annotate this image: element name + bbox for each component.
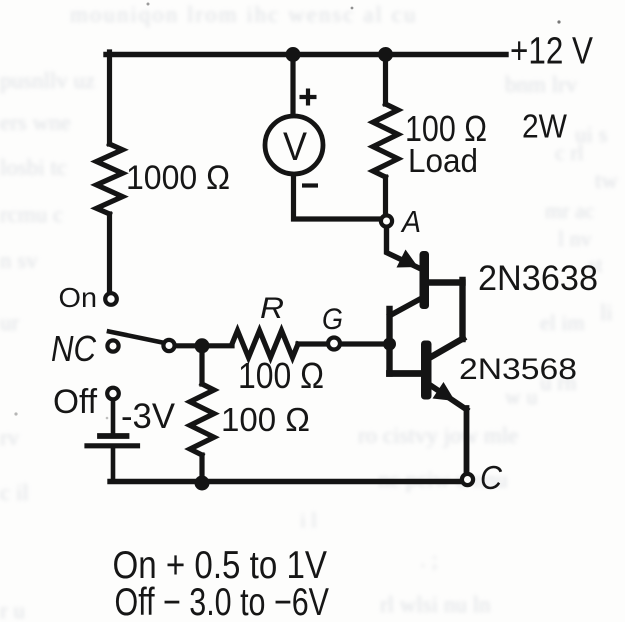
svg-text:ur: ur xyxy=(0,310,20,335)
svg-text:i l: i l xyxy=(300,508,317,532)
svg-text:. ;: . ; xyxy=(420,547,438,572)
svg-text:l nv: l nv xyxy=(558,226,592,251)
svg-text:rcmu c: rcmu c xyxy=(0,202,63,227)
svg-text:rl wlsi nu ln: rl wlsi nu ln xyxy=(380,592,491,617)
svg-text:C: C xyxy=(480,459,503,496)
svg-text:100 Ω: 100 Ω xyxy=(221,401,310,438)
svg-text:2N3638: 2N3638 xyxy=(478,259,598,298)
svg-text:100 Ω: 100 Ω xyxy=(238,355,324,396)
svg-text:ro cistvy jow mle: ro cistvy jow mle xyxy=(358,423,518,448)
svg-text:r u: r u xyxy=(0,598,25,622)
svg-text:tw: tw xyxy=(595,168,618,193)
svg-text:losbi tc: losbi tc xyxy=(0,155,67,180)
svg-text:2N3568: 2N3568 xyxy=(459,353,577,386)
svg-text:Load: Load xyxy=(408,142,478,179)
svg-text:NC: NC xyxy=(51,328,97,369)
svg-text:+12 V: +12 V xyxy=(510,31,594,73)
svg-text:li: li xyxy=(600,300,613,325)
svg-text:Off − 3.0 to −6V: Off − 3.0 to −6V xyxy=(115,581,330,622)
svg-text:el im: el im xyxy=(540,310,585,335)
svg-text:R: R xyxy=(260,292,284,325)
svg-text:bnm lrv: bnm lrv xyxy=(505,72,578,97)
svg-text:G: G xyxy=(322,303,343,336)
svg-text:On: On xyxy=(59,282,98,313)
svg-text:-3V: -3V xyxy=(121,397,176,436)
svg-text:2W: 2W xyxy=(522,108,568,145)
svg-text:pusnllv uz: pusnllv uz xyxy=(0,68,95,93)
svg-text:rv: rv xyxy=(0,425,20,450)
svg-text:Off: Off xyxy=(53,383,98,421)
svg-text:V: V xyxy=(283,125,307,169)
svg-text:n sv: n sv xyxy=(0,248,38,273)
svg-text:mouniqon lrom ihc wensc al: mouniqon lrom ihc wensc al cu xyxy=(70,2,417,27)
svg-text:1000 Ω: 1000 Ω xyxy=(126,159,230,197)
svg-text:A: A xyxy=(400,204,421,239)
svg-text:w u: w u xyxy=(505,384,537,409)
svg-text:c il: c il xyxy=(0,480,29,505)
svg-text:mr ac: mr ac xyxy=(545,198,595,223)
svg-text:ers wne: ers wne xyxy=(0,110,71,135)
